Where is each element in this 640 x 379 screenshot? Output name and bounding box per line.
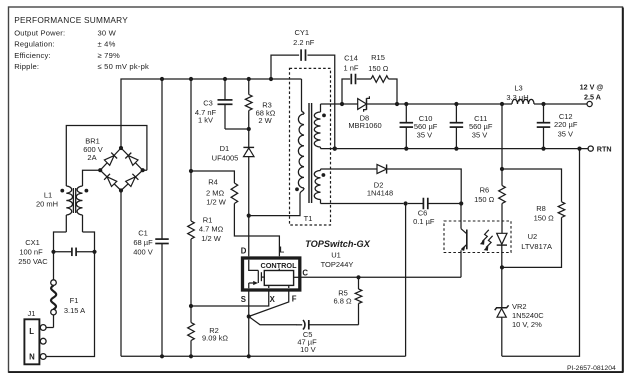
capacitor C5 bbox=[296, 320, 359, 354]
svg-text:RTN: RTN bbox=[597, 145, 612, 154]
diode D2 bbox=[321, 164, 462, 203]
wire bridge minus to ground rail bbox=[120, 191, 122, 357]
resistor R4 bbox=[189, 169, 238, 207]
svg-text:Efficiency:: Efficiency: bbox=[14, 51, 51, 60]
resistor R2 bbox=[188, 304, 229, 359]
svg-text:L3: L3 bbox=[514, 83, 522, 92]
svg-text:6.8 Ω: 6.8 Ω bbox=[333, 297, 352, 306]
svg-text:U1: U1 bbox=[331, 251, 341, 260]
pin label L bbox=[280, 246, 285, 255]
svg-text:T1: T1 bbox=[304, 214, 313, 223]
connector J1 bbox=[24, 309, 46, 364]
svg-text:1N5240C: 1N5240C bbox=[512, 311, 544, 320]
svg-text:1N4148: 1N4148 bbox=[367, 189, 393, 198]
capacitor C11 bbox=[450, 104, 493, 149]
svg-text:≥ 79%: ≥ 79% bbox=[98, 51, 121, 60]
svg-text:Regulation:: Regulation: bbox=[14, 40, 55, 49]
resistor R8 bbox=[500, 169, 565, 270]
svg-text:10 V, 2%: 10 V, 2% bbox=[512, 320, 542, 329]
svg-text:UF4005: UF4005 bbox=[212, 153, 239, 162]
svg-text:R8: R8 bbox=[536, 204, 546, 213]
capacitor C1 bbox=[133, 77, 169, 359]
svg-text:LTV817A: LTV817A bbox=[521, 242, 552, 251]
svg-text:9.09 kΩ: 9.09 kΩ bbox=[202, 334, 228, 343]
resistor R5 bbox=[333, 275, 361, 325]
diode D1 bbox=[212, 129, 254, 162]
pin label S bbox=[241, 295, 246, 304]
svg-text:VR2: VR2 bbox=[512, 302, 527, 311]
svg-text:≤ 50 mV pk-pk: ≤ 50 mV pk-pk bbox=[98, 62, 150, 71]
wire S pin to ground bbox=[247, 290, 251, 358]
svg-text:4.7 MΩ: 4.7 MΩ bbox=[199, 225, 224, 234]
U2 LED bbox=[497, 233, 507, 267]
zener VR2 bbox=[495, 267, 545, 356]
pin label X bbox=[270, 295, 276, 304]
T1 bias winding bbox=[314, 169, 325, 204]
svg-text:R15: R15 bbox=[371, 53, 385, 62]
T1 core bbox=[309, 103, 312, 203]
svg-text:2 W: 2 W bbox=[258, 116, 272, 125]
wire D1 to drain bbox=[247, 157, 251, 257]
svg-text:D: D bbox=[241, 247, 247, 256]
svg-text:1 nF: 1 nF bbox=[343, 64, 358, 73]
svg-text:400 V: 400 V bbox=[133, 248, 153, 257]
svg-text:2.2 nF: 2.2 nF bbox=[293, 38, 315, 47]
T1 primary winding bbox=[295, 79, 304, 191]
svg-text:CX1: CX1 bbox=[25, 238, 40, 247]
TOPSwitch-GX label bbox=[305, 239, 371, 269]
svg-text:C14: C14 bbox=[344, 54, 358, 63]
svg-text:35 V: 35 V bbox=[558, 130, 573, 139]
svg-text:C3: C3 bbox=[203, 98, 213, 107]
svg-text:35 V: 35 V bbox=[417, 130, 432, 139]
bridge rectifier BR1 bbox=[83, 137, 145, 193]
svg-text:2.5 A: 2.5 A bbox=[584, 92, 601, 101]
svg-text:F: F bbox=[292, 295, 297, 304]
U2 phototransistor bbox=[461, 204, 467, 278]
wire primary bottom bbox=[249, 188, 304, 216]
resistor R6 bbox=[474, 104, 505, 233]
svg-text:CY1: CY1 bbox=[295, 28, 310, 37]
pin label D bbox=[241, 247, 247, 256]
optocoupler U2 dashed box bbox=[444, 221, 552, 253]
svg-text:L: L bbox=[280, 246, 285, 255]
svg-text:Output Power:: Output Power: bbox=[14, 28, 65, 37]
svg-text:220 µF: 220 µF bbox=[554, 120, 578, 129]
fuse F1 bbox=[51, 280, 85, 315]
svg-text:150 Ω: 150 Ω bbox=[474, 195, 495, 204]
capacitor C12 bbox=[537, 104, 578, 149]
wire L1 left to bridge AC2 bbox=[66, 126, 147, 187]
IC U1 TOP244Y body bbox=[243, 258, 300, 290]
svg-text:N: N bbox=[29, 352, 35, 361]
wire source to C5 bbox=[249, 317, 297, 325]
wire CX1 to L1 bottoms bbox=[54, 215, 95, 252]
svg-text:68 µF: 68 µF bbox=[133, 238, 153, 247]
wire secondary output rail bbox=[321, 102, 588, 106]
svg-text:250 VAC: 250 VAC bbox=[18, 257, 48, 266]
svg-text:C: C bbox=[302, 269, 308, 278]
svg-text:12 V @: 12 V @ bbox=[580, 82, 604, 91]
wire R4 to L pin bbox=[234, 204, 279, 257]
capacitor C3 bbox=[195, 77, 249, 129]
wire VR2 return bbox=[502, 149, 580, 357]
svg-text:L: L bbox=[29, 327, 34, 336]
svg-text:PERFORMANCE SUMMARY: PERFORMANCE SUMMARY bbox=[14, 15, 128, 25]
resistor R1 bbox=[188, 77, 224, 306]
wire bridge plus to B+ rail bbox=[121, 79, 302, 148]
svg-text:20 mH: 20 mH bbox=[36, 200, 58, 209]
capacitor CY1 bbox=[269, 28, 337, 151]
svg-text:1/2 W: 1/2 W bbox=[206, 197, 227, 206]
svg-text:100 nF: 100 nF bbox=[19, 248, 43, 257]
svg-text:150 Ω: 150 Ω bbox=[534, 214, 555, 223]
svg-text:D1: D1 bbox=[220, 144, 230, 153]
terminal 12V bbox=[580, 82, 604, 106]
svg-text:10 V: 10 V bbox=[300, 345, 315, 354]
svg-text:150 Ω: 150 Ω bbox=[368, 64, 389, 73]
pin label F bbox=[292, 295, 297, 304]
svg-text:C1: C1 bbox=[138, 229, 148, 238]
svg-text:30 W: 30 W bbox=[98, 28, 117, 37]
svg-text:R1: R1 bbox=[203, 215, 213, 224]
capacitor C10 bbox=[400, 104, 438, 149]
wire J1-N to CX1 right bbox=[46, 252, 94, 357]
pin label C bbox=[302, 269, 308, 278]
svg-text:3.3 µH: 3.3 µH bbox=[506, 93, 528, 102]
wire fuse to CX1 bbox=[53, 252, 55, 280]
capacitor CX1 bbox=[18, 238, 96, 266]
svg-text:U2: U2 bbox=[528, 232, 538, 241]
inductor L1 bbox=[36, 186, 88, 215]
wire L1 right to bridge AC1 bbox=[83, 170, 101, 186]
wire bias return bbox=[321, 201, 408, 356]
resistor R15 bbox=[368, 53, 397, 104]
svg-text:35 V: 35 V bbox=[472, 130, 487, 139]
wire F pin to source node bbox=[249, 290, 289, 317]
diode D8 bbox=[348, 96, 381, 130]
svg-text:0.1 µF: 0.1 µF bbox=[413, 217, 435, 226]
terminal RTN bbox=[588, 145, 611, 154]
svg-text:2 MΩ: 2 MΩ bbox=[206, 188, 225, 197]
wire C pin line bbox=[300, 276, 461, 278]
svg-text:J1: J1 bbox=[28, 309, 36, 318]
resistor R3 bbox=[245, 77, 275, 131]
performance summary bbox=[14, 15, 149, 71]
svg-text:3.15 A: 3.15 A bbox=[64, 306, 85, 315]
svg-text:CONTROL: CONTROL bbox=[260, 261, 297, 270]
svg-text:TOPSwitch-GX: TOPSwitch-GX bbox=[305, 239, 371, 249]
svg-text:X: X bbox=[270, 295, 276, 304]
wire ground rail bbox=[121, 355, 406, 357]
svg-text:TOP244Y: TOP244Y bbox=[321, 260, 354, 269]
svg-text:1 kV: 1 kV bbox=[198, 116, 213, 125]
U2 light arrows bbox=[480, 230, 493, 251]
capacitor C14 bbox=[342, 54, 371, 104]
svg-text:R6: R6 bbox=[480, 186, 490, 195]
drawing number bbox=[567, 365, 616, 372]
svg-text:1/2 W: 1/2 W bbox=[201, 234, 222, 243]
svg-text:R4: R4 bbox=[208, 178, 218, 187]
wire X pin to R1/R2 node bbox=[192, 290, 269, 306]
svg-text:2A: 2A bbox=[87, 153, 96, 162]
wire J1-L to fuse bbox=[46, 315, 53, 328]
svg-text:L1: L1 bbox=[44, 190, 52, 199]
inductor L3 bbox=[506, 83, 534, 104]
svg-text:Ripple:: Ripple: bbox=[14, 62, 39, 71]
wire RTN rail bbox=[321, 147, 589, 151]
svg-text:F1: F1 bbox=[70, 296, 79, 305]
transformer T1 dashed box bbox=[290, 68, 331, 225]
capacitor C6 bbox=[408, 198, 464, 226]
svg-text:MBR1060: MBR1060 bbox=[348, 121, 381, 130]
T1 secondary winding bbox=[314, 104, 326, 149]
svg-text:S: S bbox=[241, 295, 246, 304]
svg-text:± 4%: ± 4% bbox=[98, 40, 116, 49]
svg-text:PI-2657-081204: PI-2657-081204 bbox=[567, 365, 616, 372]
